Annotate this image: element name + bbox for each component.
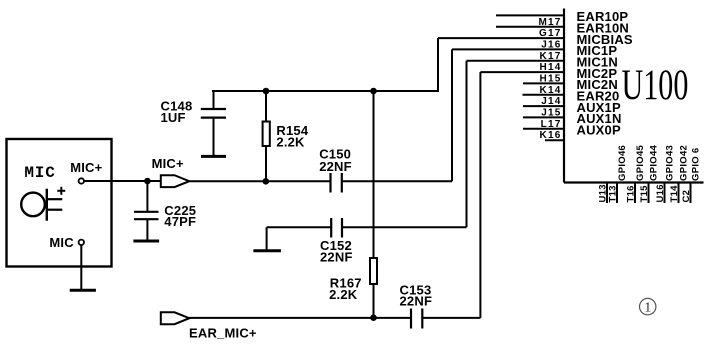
svg-text:22NF: 22NF bbox=[319, 159, 352, 174]
svg-text:U16: U16 bbox=[655, 184, 666, 202]
svg-text:47PF: 47PF bbox=[164, 214, 196, 229]
svg-text:T13: T13 bbox=[608, 185, 619, 202]
svg-text:2.2K: 2.2K bbox=[276, 135, 305, 150]
svg-text:GPIO 6: GPIO 6 bbox=[691, 148, 702, 181]
svg-text:GPIO44: GPIO44 bbox=[649, 144, 660, 181]
svg-text:22NF: 22NF bbox=[320, 250, 353, 265]
svg-text:GPIO43: GPIO43 bbox=[665, 145, 676, 181]
svg-text:T16: T16 bbox=[626, 185, 637, 202]
svg-text:MIC: MIC bbox=[49, 235, 74, 250]
svg-text:EAR_MIC+: EAR_MIC+ bbox=[189, 325, 257, 340]
svg-text:22NF: 22NF bbox=[400, 294, 433, 309]
svg-text:1UF: 1UF bbox=[161, 110, 186, 125]
svg-text:MIC+: MIC+ bbox=[70, 160, 102, 175]
svg-text:2.2K: 2.2K bbox=[329, 287, 358, 302]
svg-text:T15: T15 bbox=[639, 185, 650, 203]
svg-text:GPIO45: GPIO45 bbox=[635, 144, 646, 181]
svg-text:C2: C2 bbox=[681, 190, 692, 203]
svg-text:MIC: MIC bbox=[24, 164, 55, 182]
svg-text:MIC+: MIC+ bbox=[152, 156, 184, 171]
svg-text:1: 1 bbox=[644, 301, 651, 316]
svg-text:AUX0P: AUX0P bbox=[577, 123, 621, 138]
svg-text:GPIO42: GPIO42 bbox=[679, 145, 690, 181]
svg-text:U100: U100 bbox=[622, 62, 689, 110]
svg-text:GPIO46: GPIO46 bbox=[617, 145, 628, 181]
svg-text:T14: T14 bbox=[669, 185, 680, 203]
